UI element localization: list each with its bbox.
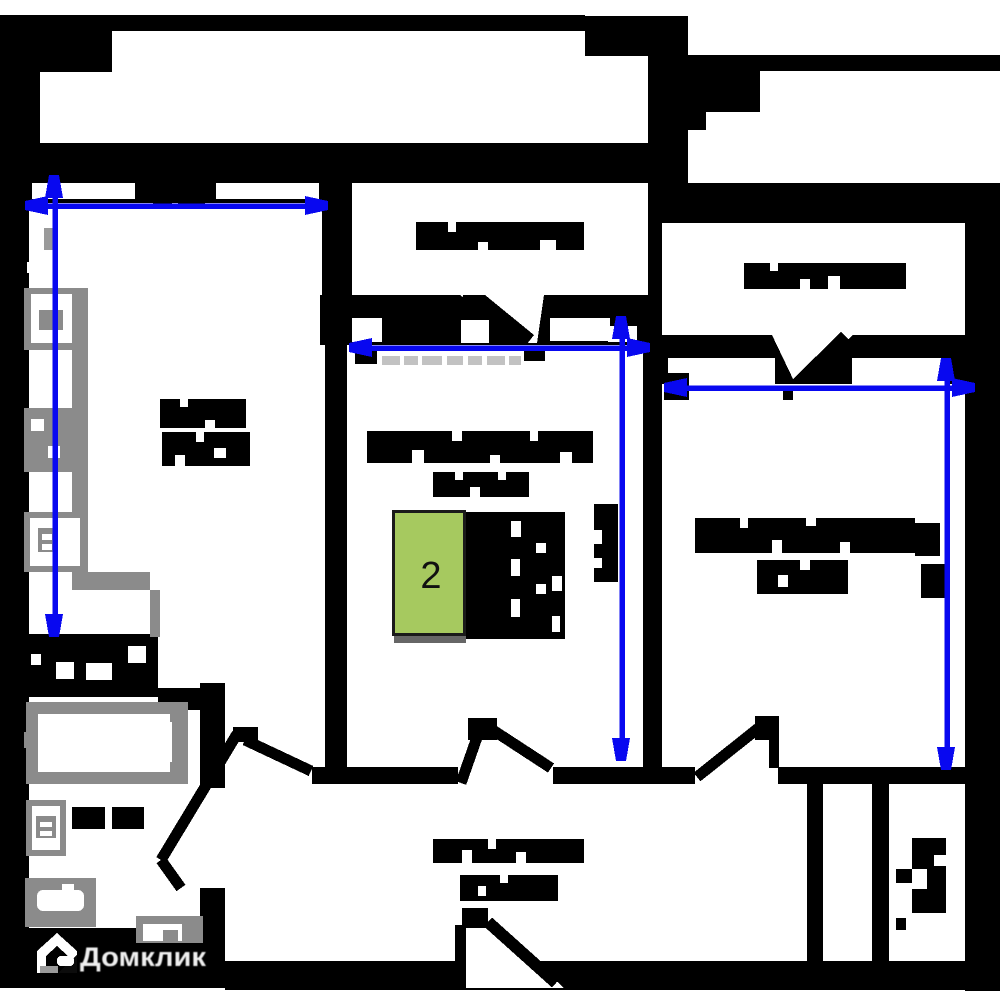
window mid-room a xyxy=(352,318,382,342)
label notches xyxy=(180,399,188,407)
door gap right-room xyxy=(695,767,778,784)
label balkon xyxy=(416,222,584,250)
kitchen fridge inner xyxy=(31,294,72,343)
dim faint text left-vert xyxy=(44,228,53,250)
wardrobe xyxy=(466,512,565,639)
label right-room line1 xyxy=(695,518,915,553)
bath wall notches xyxy=(31,654,41,665)
label room1 line1 xyxy=(160,399,246,428)
dim line right-room horizontal xyxy=(668,385,970,391)
window right-room b xyxy=(852,358,948,384)
wall closet bar2 xyxy=(872,783,889,961)
wall block C xyxy=(585,16,648,56)
bath sink xyxy=(26,800,66,856)
wall mid-right divider xyxy=(646,223,662,345)
wall window right-room xyxy=(648,335,965,384)
wall mid-room bottom xyxy=(312,767,663,784)
radiator notch xyxy=(594,530,602,544)
kitchen fridge xyxy=(24,288,88,350)
wall left exterior xyxy=(0,183,29,968)
svg-text:2: 2 xyxy=(420,555,441,597)
door right-room xyxy=(697,722,766,777)
wall room1-right xyxy=(322,183,352,345)
dim line right-room vertical xyxy=(944,362,950,764)
radiator blob xyxy=(594,504,618,582)
wall bath right lower xyxy=(200,888,225,968)
washing machine xyxy=(136,916,203,943)
bubble balkon xyxy=(352,184,648,295)
svg-text:Домклик: Домклик xyxy=(80,942,207,972)
dim text right-vert xyxy=(921,564,945,598)
wardrobe notches xyxy=(511,521,521,537)
wall band E xyxy=(688,55,1000,71)
label room1 line2 xyxy=(162,432,250,466)
wall top band xyxy=(0,15,585,31)
label hallway line1 xyxy=(433,839,584,863)
kitchen stove xyxy=(24,408,88,472)
window left-wall notch xyxy=(27,262,46,273)
window room1 a xyxy=(32,183,135,199)
dim line room1 horizontal xyxy=(30,203,322,209)
wall bath right upper xyxy=(200,683,225,788)
logo house xyxy=(37,933,77,973)
dim marks mid xyxy=(355,350,377,364)
kitchen sink inner xyxy=(30,518,80,566)
bubble lodjia xyxy=(680,223,965,335)
wall bath top xyxy=(27,634,158,697)
door leaf mid-balcony xyxy=(463,295,534,344)
kitchen sink xyxy=(24,512,88,572)
label bath xyxy=(72,807,105,829)
door bath xyxy=(161,734,311,888)
door leaf right-balcony xyxy=(791,332,852,381)
closet glyph xyxy=(912,838,946,913)
toilet xyxy=(25,878,96,927)
wall block F xyxy=(688,70,760,112)
window room1 b xyxy=(216,183,319,199)
dim marks right xyxy=(664,373,689,400)
wall bottom band xyxy=(225,961,1000,990)
wall band mid xyxy=(0,143,648,183)
wall top-left block xyxy=(0,15,112,72)
wall window mid-room xyxy=(320,295,648,345)
wall column D xyxy=(648,16,688,183)
door hallway-bottom xyxy=(488,922,556,983)
dim line mid-room vertical xyxy=(619,320,625,755)
wall right exterior xyxy=(965,223,1000,991)
door mid-room xyxy=(461,723,551,783)
door gap bath xyxy=(200,788,225,888)
dim line room1 vertical xyxy=(52,180,58,630)
dim faint text mid xyxy=(382,356,521,365)
dim marks top-left xyxy=(153,197,172,206)
wall left sill xyxy=(0,183,350,203)
kitchen stove details xyxy=(31,419,44,431)
window right-room a xyxy=(668,358,775,384)
label right-room line2 xyxy=(757,560,848,594)
kitchen counter L xyxy=(72,572,150,590)
kitchen counter strip xyxy=(72,288,88,572)
window mid-room b xyxy=(550,318,610,341)
label mid-room line2 xyxy=(433,472,529,497)
wall left column upper xyxy=(0,72,40,183)
unit area green xyxy=(394,636,466,643)
door gap hallway-bottom xyxy=(466,918,564,988)
wall closet bar1 xyxy=(807,783,823,961)
wall band G xyxy=(648,183,1000,223)
wall right-room bottom xyxy=(663,767,965,784)
label hallway line2 xyxy=(460,875,558,901)
closet glyph notches xyxy=(934,855,946,866)
bathtub xyxy=(26,702,188,784)
label lodjia xyxy=(744,263,906,289)
label mid-room line1 xyxy=(367,431,593,463)
door gap mid-room xyxy=(458,767,553,784)
wall bath shelf xyxy=(158,688,225,710)
dim line mid-room horizontal xyxy=(353,345,645,351)
